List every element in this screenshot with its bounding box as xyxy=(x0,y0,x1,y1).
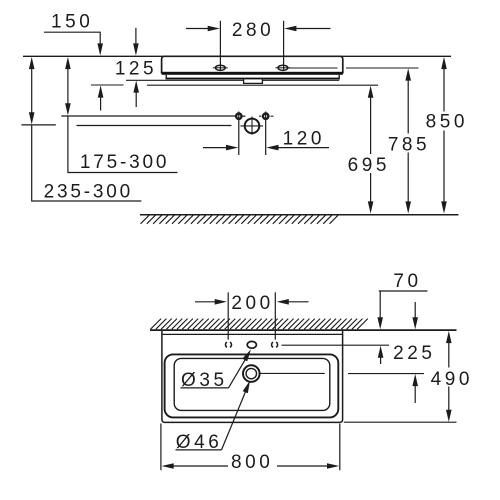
trap outlet circle xyxy=(245,119,260,134)
dimension 280 arrow right-side xyxy=(284,26,296,32)
trap outlet cross ticks xyxy=(240,117,263,135)
basin plan outer outline xyxy=(162,331,343,423)
dimension 695 double arrow xyxy=(368,86,374,98)
svg-text:490: 490 xyxy=(431,369,473,390)
dimension 150 arrow down xyxy=(97,43,103,55)
dimension 70 arrow down xyxy=(377,317,383,329)
svg-text:800: 800 xyxy=(231,452,273,473)
top reference line (basin top level, 850 level) xyxy=(23,55,451,57)
dimension 200 arrow right-side xyxy=(277,299,289,305)
dimension 800 extension lines xyxy=(161,424,340,471)
screw hole right plan xyxy=(272,342,278,347)
svg-text:235-300: 235-300 xyxy=(44,182,133,203)
basin ledge bottom edge xyxy=(166,78,339,80)
floor hatching xyxy=(141,215,339,224)
wall hatching xyxy=(151,319,368,330)
svg-text:280: 280 xyxy=(232,20,274,41)
basin side view body xyxy=(162,56,343,73)
dimension 785 double arrow xyxy=(405,68,411,80)
drain tab under basin xyxy=(244,78,263,83)
dimension 225 arrow down xyxy=(414,302,416,319)
bowl outer outline xyxy=(165,354,339,417)
dimension 850 double arrow xyxy=(441,57,447,69)
basin plan top edge xyxy=(162,333,343,335)
supply hole right (circle with ticks) xyxy=(263,114,268,119)
dimension 280 arrow left-side xyxy=(186,28,208,30)
svg-text:850: 850 xyxy=(426,112,468,133)
label O46 underline xyxy=(176,449,222,451)
svg-text:695: 695 xyxy=(348,155,390,176)
drain circle outer (O46) xyxy=(243,365,260,382)
label O46 leader xyxy=(222,391,246,450)
dimension 70 arrow up xyxy=(378,346,384,358)
dimension 175-300 leader and label xyxy=(68,116,178,173)
dimension 125 arrow down xyxy=(135,28,137,45)
screw hole left plan xyxy=(225,342,231,347)
bowl inner outline xyxy=(174,358,330,410)
wall line xyxy=(150,329,457,331)
dimension 800 arrow left-side xyxy=(162,463,174,469)
svg-text:120: 120 xyxy=(283,129,325,150)
basin side view ledge xyxy=(166,75,339,80)
dimension 120 extension lines xyxy=(239,112,266,156)
basin front edge extension line (490 bottom ref) xyxy=(344,421,457,423)
tap hole 2 side view xyxy=(278,65,288,70)
label O35 underline xyxy=(181,387,229,389)
svg-text:150: 150 xyxy=(51,12,93,33)
tap hole 1 side view xyxy=(215,65,225,70)
trap connection level line (235-300) xyxy=(21,124,231,127)
dimension 235-300 leader and label xyxy=(32,125,142,202)
dimension 200 arrow left-side xyxy=(195,301,215,303)
svg-text:785: 785 xyxy=(388,135,430,156)
dimension 800 arrow right-side xyxy=(327,463,339,469)
svg-text:125: 125 xyxy=(115,58,157,79)
svg-text:200: 200 xyxy=(231,293,273,314)
dimension 70 leader underline xyxy=(379,291,428,319)
dimension 490 double arrow xyxy=(446,331,452,343)
785 reference line (tap hole centre level) xyxy=(288,67,419,69)
svg-text:175-300: 175-300 xyxy=(80,152,169,173)
tap hole centre line xyxy=(282,344,390,346)
dimension 235-300 double arrow xyxy=(29,57,35,69)
695 / 150 reference line (bracket bottom level) xyxy=(91,84,378,86)
supply hole left (circle with ticks) xyxy=(236,114,241,119)
basin side view thick bottom edge xyxy=(162,72,343,75)
dimension 175-300 double arrow xyxy=(65,57,71,69)
tap hole plan (O35) xyxy=(247,341,256,348)
drain centre line xyxy=(260,372,424,374)
label O35 leader xyxy=(229,353,250,388)
supply connection level line (175-300) xyxy=(61,115,235,117)
dimension 280 extension lines xyxy=(220,21,283,71)
dimension 225 arrow up xyxy=(412,374,418,386)
dimension 150 leader underline xyxy=(44,32,100,43)
125 reference line xyxy=(126,79,339,81)
drain circle inner xyxy=(246,368,256,378)
dimension 120 arrow right-side xyxy=(266,145,278,151)
svg-text:225: 225 xyxy=(393,343,435,364)
svg-text:70: 70 xyxy=(393,271,421,292)
dimension 120 arrow left-side xyxy=(203,147,226,149)
dimension 125 arrow up xyxy=(133,80,139,92)
dimension 150 arrow up xyxy=(98,85,104,97)
floor line xyxy=(140,214,458,216)
dimension 200 extension lines xyxy=(228,292,275,339)
